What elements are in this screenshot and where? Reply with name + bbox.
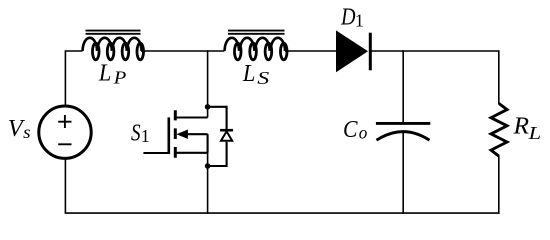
inductor LS core bars [228, 31, 285, 34]
label Co [343, 116, 367, 143]
wire left vertical above source [64, 50, 66, 106]
wire capacitor vertical to bottom wire [402, 132, 404, 214]
svg-text:o: o [359, 122, 368, 142]
transistor S1 channel segments [174, 110, 177, 157]
wire right vertical below RL [498, 156, 500, 214]
junction dot top of body-diode branch [205, 104, 211, 110]
junction dot bottom of body-diode branch [205, 163, 211, 169]
svg-text:S: S [257, 68, 269, 88]
body diode triangle [221, 131, 232, 140]
svg-text:L: L [242, 60, 255, 87]
svg-text:1: 1 [141, 126, 150, 146]
inductor LP coil loops [92, 43, 143, 60]
transistor S1 bulk-to-source vertical [207, 134, 209, 153]
label D1 [340, 4, 364, 31]
inductor LP core bars [86, 31, 141, 34]
transistor S1 source lead [175, 152, 207, 154]
wire top between LP and LS [141, 50, 225, 52]
svg-text:s: s [23, 122, 31, 142]
svg-text:L: L [98, 60, 111, 87]
wire top-left horizontal [65, 50, 82, 52]
svg-text:R: R [512, 113, 529, 140]
label LP [98, 60, 126, 88]
transistor S1 bulk lead with arrow [176, 130, 207, 139]
transistor S1 gate bar [168, 117, 171, 154]
transistor S1 drain lead [175, 116, 207, 118]
wire top between D1 and right corner [372, 50, 499, 52]
voltage source minus sign [58, 143, 71, 145]
inductor LP coil crest arcs [83, 38, 142, 51]
wire body-diode branch top horizontal [208, 106, 227, 108]
transistor S1 gate lead [143, 152, 168, 154]
label Vs [8, 115, 31, 142]
capacitor Co top plate [376, 122, 430, 125]
svg-text:C: C [343, 116, 358, 143]
wire MOSFET drain vertical from top wire [207, 50, 209, 117]
wire body-diode branch right vertical upper [226, 106, 228, 130]
capacitor Co curved bottom plate [377, 132, 430, 141]
label S1 [131, 119, 150, 146]
inductor LS coil crest arcs [225, 38, 285, 51]
wire MOSFET source vertical to bottom wire [207, 153, 209, 214]
wire body-diode branch bottom horizontal [208, 165, 227, 167]
label LS [242, 60, 269, 88]
svg-text:S: S [131, 119, 141, 146]
svg-text:L: L [527, 123, 541, 143]
svg-text:D: D [340, 4, 356, 31]
resistor RL zigzag [491, 104, 507, 157]
wire body-diode branch right vertical lower [226, 142, 228, 167]
diode D1 triangle [336, 30, 368, 72]
wire right vertical above RL [498, 50, 500, 104]
wire top between LS and D1 [285, 50, 337, 52]
voltage source plus sign [58, 115, 71, 128]
svg-text:1: 1 [355, 11, 364, 31]
inductor LS coil loops [234, 43, 287, 60]
svg-text:P: P [113, 67, 127, 87]
wire capacitor vertical from top wire [402, 50, 404, 123]
voltage source Vs circle [39, 106, 91, 158]
diode D1 cathode bar [369, 33, 372, 71]
body diode cathode bar [220, 129, 233, 132]
wire left vertical below source [64, 158, 66, 213]
wire bottom horizontal [65, 212, 500, 214]
label RL [512, 113, 541, 143]
